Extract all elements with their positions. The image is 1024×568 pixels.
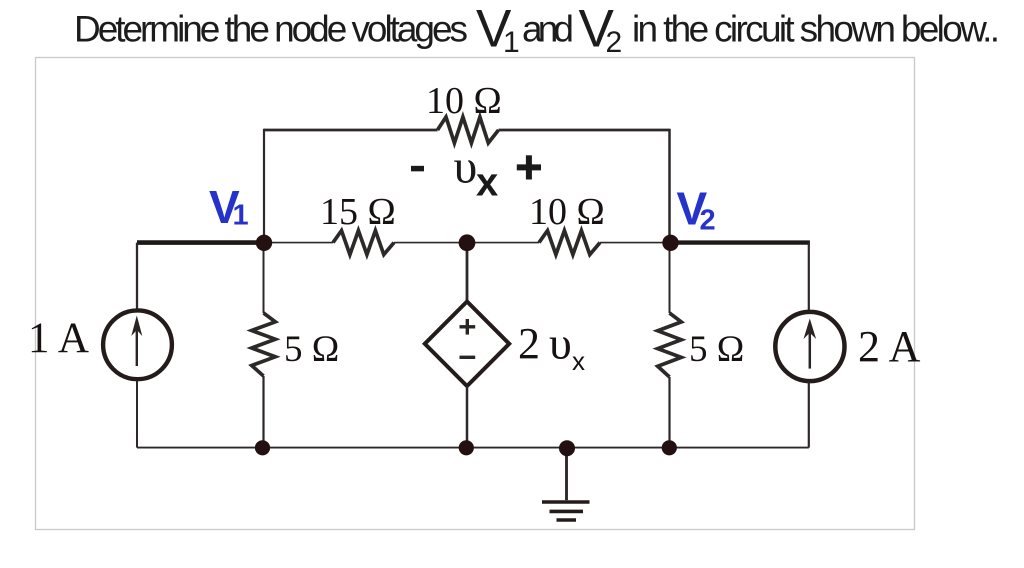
svg-text:2: 2 xyxy=(518,319,540,368)
svg-text:and: and xyxy=(522,9,574,50)
svg-text:2 A: 2 A xyxy=(858,322,921,371)
svg-text:Determine the node voltages: Determine the node voltages xyxy=(74,9,468,50)
svg-text:1: 1 xyxy=(503,26,520,59)
svg-text:15 Ω: 15 Ω xyxy=(320,191,396,233)
svg-text:10 Ω: 10 Ω xyxy=(426,80,502,122)
svg-text:5 Ω: 5 Ω xyxy=(689,329,744,370)
svg-text:υ: υ xyxy=(549,317,572,368)
svg-text:1 A: 1 A xyxy=(28,315,89,362)
svg-text:x: x xyxy=(476,161,498,205)
svg-text:x: x xyxy=(572,346,585,376)
svg-text:10 Ω: 10 Ω xyxy=(529,191,605,233)
svg-text:υ: υ xyxy=(454,141,478,194)
svg-text:1: 1 xyxy=(233,200,249,232)
svg-text:in the circuit shown below..: in the circuit shown below.. xyxy=(632,9,1000,50)
svg-text:2: 2 xyxy=(606,26,623,59)
svg-text:5 Ω: 5 Ω xyxy=(284,329,339,370)
svg-text:2: 2 xyxy=(700,205,716,237)
